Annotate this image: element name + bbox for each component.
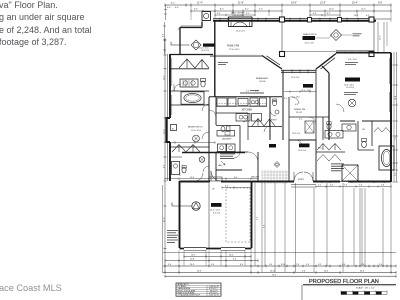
hall door arcs <box>292 97 316 146</box>
porch west edge <box>281 22 283 52</box>
yard rotated dim text <box>257 217 266 228</box>
front wall window ticks <box>322 181 384 184</box>
living scatter texts <box>284 98 302 121</box>
svg-text:12'-6": 12'-6" <box>320 2 326 4</box>
porch label REAR PORCH <box>303 36 316 40</box>
svg-text:DINING RM: DINING RM <box>294 109 305 111</box>
laundry counter <box>217 131 235 137</box>
svg-text:16'-4": 16'-4" <box>352 2 358 4</box>
wic wall <box>316 151 345 153</box>
bath2 door arc <box>195 173 203 181</box>
dim ticks top row1 <box>165 4 391 7</box>
dim line top row1 <box>165 4 391 6</box>
primary top wall <box>336 52 391 54</box>
svg-text:24'-0: 24'-0 <box>190 264 194 266</box>
left notes block <box>167 230 178 243</box>
svg-text:5'-6: 5'-6 <box>359 185 362 187</box>
left exterior wall with bay bump <box>167 54 171 181</box>
mid bath vanity <box>325 131 343 139</box>
svg-text:5'-0: 5'-0 <box>306 264 309 266</box>
scale bar <box>341 292 387 295</box>
svg-text:4'-0: 4'-0 <box>167 7 171 9</box>
svg-text:8'-0: 8'-0 <box>240 264 243 266</box>
bottom dim row4 <box>163 272 396 274</box>
hall to foyer walls <box>216 152 258 181</box>
bottom dim row2 left <box>165 260 258 262</box>
primary toilet <box>362 139 367 142</box>
kitchen label <box>242 110 252 112</box>
svg-text:5'-8: 5'-8 <box>381 185 384 187</box>
hall closet walls mid-right <box>316 69 329 140</box>
porch column top-right <box>369 17 374 22</box>
porch column bottom-left <box>280 52 285 57</box>
left wing tub oval <box>184 93 201 102</box>
left upper dim line <box>163 22 166 54</box>
svg-text:17'-4 x 18'-2: 17'-4 x 18'-2 <box>229 49 239 51</box>
dim line top row2 <box>191 10 391 12</box>
den outline with bay <box>180 22 203 55</box>
garage inner wall line <box>208 183 210 248</box>
svg-text:4'-0: 4'-0 <box>246 13 250 15</box>
garage top wall <box>180 181 252 183</box>
primary door arc <box>336 104 344 112</box>
svg-text:2'-8: 2'-8 <box>361 264 364 266</box>
garden tub <box>382 150 392 167</box>
right exterior wall <box>390 53 392 182</box>
bath1 toilet <box>201 79 206 82</box>
svg-text:TOTAL AREA UNDER ROOF: TOTAL AREA UNDER ROOF <box>178 294 201 297</box>
nook flat wall ticks <box>292 69 308 73</box>
primary dim text <box>348 59 357 61</box>
garage door lines <box>184 247 245 249</box>
laundry tub circle <box>199 157 205 163</box>
hall east wall segments <box>215 97 217 181</box>
primary top wall inner <box>336 50 374 52</box>
svg-text:20'-0 x 21'-8: 20'-0 x 21'-8 <box>210 210 220 212</box>
living room divider wall <box>322 66 329 140</box>
svg-text:12'-0 CLG: 12'-0 CLG <box>291 77 300 79</box>
linen closet peaks <box>374 128 390 133</box>
bedroom2 dim row <box>166 141 215 143</box>
right side dim verticals <box>394 52 397 182</box>
scale note <box>356 286 375 289</box>
dim text far left <box>171 2 175 4</box>
left dim ticks <box>164 40 167 249</box>
dryer box <box>227 144 236 152</box>
svg-text:6'-2: 6'-2 <box>327 13 331 15</box>
svg-text:4'-6: 4'-6 <box>313 13 317 15</box>
breakfast nook label <box>256 77 269 83</box>
primary upper notes <box>345 62 358 65</box>
hall west wall <box>208 97 210 181</box>
water heater leader line <box>172 203 192 207</box>
hall bath sink <box>275 110 279 114</box>
entry double door arcs <box>294 172 313 181</box>
svg-text:3'-0: 3'-0 <box>225 186 228 188</box>
svg-text:14'-0": 14'-0" <box>291 2 297 4</box>
primary bath top wall <box>340 120 391 122</box>
garage top outside dim row <box>165 178 258 180</box>
svg-text:UP: UP <box>212 189 215 191</box>
hall closet arc <box>248 152 258 162</box>
foyer label <box>299 144 310 148</box>
svg-text:8'-0: 8'-0 <box>163 34 165 37</box>
svg-text:W.I.C.: W.I.C. <box>318 148 323 150</box>
svg-text:8'-10: 8'-10 <box>281 264 285 266</box>
svg-text:11'-0 x 12'-4: 11'-0 x 12'-4 <box>191 130 201 132</box>
entry steps <box>291 185 316 188</box>
bath1 vanity hatch <box>183 80 192 87</box>
entry label <box>298 179 305 181</box>
wic labels <box>318 129 365 150</box>
svg-text:5'-0: 5'-0 <box>284 98 287 100</box>
bedroom3 bottom wall <box>170 146 209 148</box>
bottom dim row3 full <box>163 265 396 267</box>
hall door arcs <box>202 104 209 172</box>
powder room fixtures <box>221 126 225 131</box>
kitchen counter edge <box>216 106 267 108</box>
kitchen lower wall <box>216 112 248 114</box>
ent center label <box>232 13 245 18</box>
svg-text:GALLERY: GALLERY <box>251 176 260 179</box>
rear wall (top, behind windows) <box>213 18 374 20</box>
svg-text:12'-0: 12'-0 <box>380 36 382 40</box>
pantry shelf peaks <box>252 119 275 127</box>
bottom dim row1 thin <box>163 252 396 254</box>
bedroom3 label <box>188 127 203 129</box>
hall bath toilet <box>273 100 277 105</box>
closet2 wall <box>170 156 182 158</box>
primary ceiling fan <box>348 99 356 107</box>
svg-text:10'-8: 10'-8 <box>354 15 358 17</box>
shower with hatch <box>342 165 358 181</box>
family scatter notes <box>218 62 259 91</box>
laundry label <box>222 138 232 141</box>
svg-text:11'x12': 11'x12' <box>296 112 303 114</box>
toilet room walls <box>358 121 374 150</box>
wic closet rod peaks top-left <box>179 59 209 68</box>
door marker diamond <box>274 162 280 168</box>
title underline double <box>303 284 396 286</box>
tub room wall <box>170 104 209 106</box>
svg-text:6'-2: 6'-2 <box>366 15 369 17</box>
pantry wall <box>248 113 282 140</box>
laundry walls <box>216 126 248 153</box>
garage extension lines <box>179 250 251 272</box>
svg-text:PWDR: PWDR <box>271 120 277 122</box>
rear wall window ticks <box>220 18 358 22</box>
family room label <box>227 45 239 48</box>
dining label <box>294 109 305 114</box>
right top dim verticals <box>378 22 384 52</box>
top right dim texts <box>354 15 369 17</box>
svg-text:6'-0: 6'-0 <box>330 185 333 187</box>
entertainment center niche <box>229 17 253 27</box>
mid bath toilet <box>327 124 331 130</box>
svg-text:BREAKFAST: BREAKFAST <box>256 77 269 80</box>
dim mini row3 segments <box>215 14 340 16</box>
svg-text:HALL: HALL <box>218 164 223 167</box>
svg-text:6'-8: 6'-8 <box>264 225 266 228</box>
bath2 vanity <box>172 162 180 175</box>
svg-text:15'-0: 15'-0 <box>329 9 334 11</box>
svg-text:16'-0: 16'-0 <box>191 255 195 257</box>
svg-text:8'-0: 8'-0 <box>220 9 224 11</box>
note text block right <box>331 164 344 172</box>
front wall segments <box>252 181 391 183</box>
right top rotated dim text <box>380 36 382 40</box>
svg-text:3'-0: 3'-0 <box>211 264 214 266</box>
svg-text:6'-2: 6'-2 <box>245 9 249 11</box>
right top corner tick <box>386 22 388 46</box>
svg-text:24'-8: 24'-8 <box>197 270 201 272</box>
svg-text:16'-4: 16'-4 <box>395 96 397 100</box>
closet2 rod peaks <box>172 145 200 153</box>
svg-text:13'-6 x 16'-0: 13'-6 x 16'-0 <box>344 84 354 86</box>
svg-text:11'-4 CLG: 11'-4 CLG <box>346 87 355 89</box>
top-left corner dim line <box>164 5 167 20</box>
porch east edge <box>373 22 375 51</box>
svg-text:NOOK: NOOK <box>260 81 267 83</box>
family room half wall <box>210 55 262 57</box>
primary top wall window ticks <box>345 52 367 54</box>
linen closet x-box <box>305 121 314 133</box>
bath1 wall <box>170 90 209 92</box>
top-left corner dim texts <box>167 7 179 9</box>
garage door dim row <box>184 256 251 258</box>
porch leader <box>315 34 332 38</box>
svg-text:6'-0: 6'-0 <box>342 264 345 266</box>
den fan leader <box>171 42 190 45</box>
nook bay window left <box>265 56 281 67</box>
svg-text:ENTRY: ENTRY <box>298 179 305 181</box>
hall texts <box>218 97 301 179</box>
hall bath walls <box>270 70 283 140</box>
area table <box>176 283 221 296</box>
svg-text:7'-0: 7'-0 <box>344 185 347 187</box>
watermark Space Coast MLS <box>0 283 62 293</box>
svg-text:12'-0 CLG: 12'-0 CLG <box>298 150 307 152</box>
svg-text:4'-0: 4'-0 <box>255 91 258 93</box>
primary note lines <box>344 92 358 95</box>
svg-text:5'-6: 5'-6 <box>194 9 198 11</box>
nook clg text <box>291 77 300 79</box>
svg-text:LAUNDRY: LAUNDRY <box>222 138 232 141</box>
left vertical dim line <box>165 38 168 273</box>
svg-text:4'-0: 4'-0 <box>246 91 249 93</box>
garage step <box>209 177 222 181</box>
dining room walls <box>289 140 316 181</box>
fireplace inner circle <box>204 13 209 18</box>
svg-text:16'-0: 16'-0 <box>229 255 233 257</box>
living dim line <box>284 90 316 92</box>
svg-text:11'-8: 11'-8 <box>190 259 194 261</box>
left lower second dim line <box>162 185 164 273</box>
dim text top row1 <box>197 2 383 4</box>
closet wall <box>170 68 209 70</box>
svg-text:4'-0: 4'-0 <box>175 7 179 9</box>
svg-text:PROPOSED FLOOR PLAN: PROPOSED FLOOR PLAN <box>309 279 379 285</box>
row3 text <box>168 264 382 266</box>
right dim rotated text <box>395 96 397 140</box>
svg-text:14'-10: 14'-10 <box>270 270 275 272</box>
wic2 peaks lower <box>317 155 341 162</box>
nook bottom window wall <box>240 92 264 94</box>
wing south thick wall <box>182 152 245 154</box>
svg-text:9'-4 x 12'-0: 9'-4 x 12'-0 <box>348 59 357 61</box>
garage side walls <box>180 181 252 248</box>
bath1 door arc <box>174 84 181 91</box>
bedroom3 ceiling fan <box>193 135 200 142</box>
porch fan leader <box>342 34 353 36</box>
title block vertical line <box>301 285 303 300</box>
rear wall main <box>213 20 376 22</box>
nook bay window right <box>319 56 336 69</box>
water heater <box>192 202 200 210</box>
garage bottom wall segments <box>180 248 252 250</box>
kitchen upper cabinets dashed <box>216 103 267 105</box>
porch post mid1 <box>308 18 312 23</box>
garage top dim texts <box>212 186 228 191</box>
listing description text <box>0 0 92 49</box>
bath1 vanity <box>180 79 198 87</box>
svg-text:FAMILY RM: FAMILY RM <box>227 45 239 48</box>
svg-text:7'-0: 7'-0 <box>395 137 397 140</box>
wic peaks right of foyer <box>317 144 341 151</box>
svg-text:9'-2: 9'-2 <box>318 264 321 266</box>
extension lines from top band <box>191 6 391 22</box>
svg-text:BEDROOM #3: BEDROOM #3 <box>188 127 203 129</box>
svg-text:21'-8": 21'-8" <box>238 2 244 4</box>
tub room platform <box>181 92 204 104</box>
porch floor edge <box>282 51 374 53</box>
hall wall above foyer <box>289 97 316 140</box>
svg-text:9'-0: 9'-0 <box>168 264 171 266</box>
note arrow <box>221 161 225 165</box>
porch column bottom-right <box>369 52 374 57</box>
svg-text:3,287 SQ FT: 3,287 SQ FT <box>209 295 220 297</box>
kitchen appliance row <box>217 98 227 106</box>
bath2 rotated text <box>180 173 182 176</box>
kitchen lower counter <box>236 114 250 122</box>
svg-text:4'-0: 4'-0 <box>257 217 259 220</box>
svg-text:11'-4": 11'-4" <box>197 2 203 4</box>
row4 text <box>197 270 364 272</box>
svg-text:75'-4: 75'-4 <box>272 275 276 277</box>
kitchen door arcs <box>243 117 270 132</box>
garage top dim ticks <box>222 186 251 188</box>
svg-text:REAR PORCH: REAR PORCH <box>303 33 317 36</box>
bath2 toilet <box>182 167 186 173</box>
svg-text:SCALE : 1/4" = 1'-0": SCALE : 1/4" = 1'-0" <box>356 286 375 289</box>
svg-text:5'-2: 5'-2 <box>395 173 397 176</box>
svg-text:10'-4: 10'-4 <box>324 270 328 272</box>
right wall window inner <box>388 58 390 112</box>
svg-text:13'-0 x 14'-6: 13'-0 x 14'-6 <box>301 90 311 92</box>
svg-text:44'-6: 44'-6 <box>360 270 364 272</box>
svg-text:9'-4 CLG: 9'-4 CLG <box>213 212 221 214</box>
window marker square 40 <box>171 125 177 131</box>
svg-text:7'-0: 7'-0 <box>259 9 263 11</box>
bottom overall line <box>165 275 396 277</box>
foyer tile hatch <box>262 170 288 184</box>
svg-text:4'-2: 4'-2 <box>299 119 302 121</box>
porch column top-left <box>280 17 285 22</box>
den top window inner line <box>178 26 202 30</box>
living room label <box>303 84 313 88</box>
svg-text:12'-0 CLG: 12'-0 CLG <box>236 31 245 33</box>
primary bath vanity <box>342 124 356 131</box>
svg-text:4'-2: 4'-2 <box>318 185 321 187</box>
svg-text:3'-4: 3'-4 <box>379 264 382 266</box>
nook bay diagonal left <box>262 56 282 70</box>
nook bay flat window wall <box>281 70 316 72</box>
kitchen sink circles <box>251 100 254 103</box>
svg-text:8'-4: 8'-4 <box>234 177 237 179</box>
gallery label box <box>269 144 276 148</box>
svg-text:10'-0: 10'-0 <box>190 177 194 179</box>
extra door arcs middle <box>209 110 276 158</box>
kitchen top wall <box>209 96 282 98</box>
svg-text:12'-0 CLG: 12'-0 CLG <box>234 15 243 17</box>
row4 ticks <box>165 271 396 274</box>
front wall window sill <box>340 181 348 183</box>
right dim ticks <box>393 65 399 182</box>
svg-text:10'-0 CLG: 10'-0 CLG <box>201 50 210 52</box>
primary bedroom label <box>345 78 360 82</box>
svg-text:8'-0: 8'-0 <box>171 2 175 4</box>
porch post mid2 <box>338 18 342 23</box>
svg-text:5'-0: 5'-0 <box>269 264 272 266</box>
svg-text:6'-8: 6'-8 <box>295 104 298 106</box>
svg-text:12'-0 CLG: 12'-0 CLG <box>305 43 314 45</box>
svg-text:3'-6: 3'-6 <box>217 13 221 15</box>
svg-text:LIN: LIN <box>362 129 365 131</box>
rear wall right thin continuation <box>374 18 391 20</box>
left wall window inner line <box>171 58 173 115</box>
dim text top row2 <box>194 9 366 11</box>
title PROPOSED FLOOR PLAN <box>309 279 379 285</box>
washer box <box>218 144 227 152</box>
tub platform <box>379 146 394 170</box>
garage label <box>211 203 222 207</box>
svg-text:9'-0": 9'-0" <box>378 2 383 4</box>
porch ceiling fan <box>331 30 342 41</box>
left wing top wall <box>170 54 213 56</box>
dim ticks top row2 <box>191 10 391 13</box>
svg-text:13'-0 CLG: 13'-0 CLG <box>292 133 301 135</box>
garage dashed slab rect <box>226 188 250 242</box>
svg-text:9'-6: 9'-6 <box>302 270 305 272</box>
svg-text:9'-4: 9'-4 <box>233 259 236 261</box>
left dim rotated text <box>163 75 165 222</box>
garage entry door arc <box>211 171 221 181</box>
scale bar tick labels <box>341 290 387 291</box>
svg-text:11'-0: 11'-0 <box>361 9 366 11</box>
den ceiling fan <box>191 40 201 50</box>
den label <box>203 44 215 47</box>
row3 ticks <box>165 265 396 268</box>
svg-text:7'-8: 7'-8 <box>296 264 299 266</box>
under-wall dim row right <box>316 186 391 188</box>
note text block middle <box>220 154 235 159</box>
nook bay diagonal right <box>316 54 336 70</box>
fireplace box <box>202 12 211 21</box>
family room west wall <box>214 20 216 97</box>
svg-text:KITCHEN: KITCHEN <box>242 110 252 112</box>
front yard extension lines <box>255 183 391 272</box>
